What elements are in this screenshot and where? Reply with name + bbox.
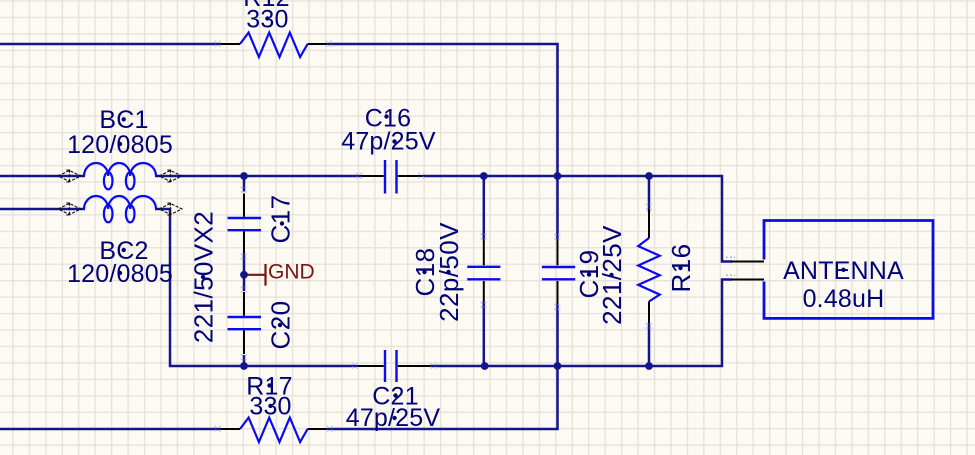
junction node top rail at R16 (645, 172, 653, 180)
capacitor C19 wire stubs (556, 176, 559, 366)
capacitor C21 plates (385, 350, 397, 382)
marker BC1 pin 1 (58, 170, 81, 183)
capacitor C16 plates (385, 160, 397, 194)
resistor R17 leads (pins) (220, 428, 328, 430)
inductor BC2 (84, 196, 156, 222)
antenna U1 pins (731, 262, 764, 280)
marker BC1 pin 2 (159, 170, 182, 183)
capacitor C20 plates (228, 317, 262, 329)
wire top rail left of R12 (0, 43, 220, 46)
resistor R17 (240, 418, 308, 442)
capacitor C17 plates (228, 218, 262, 230)
capacitor C17 wire stubs (243, 176, 246, 366)
pin-end ghost marks R17 (216, 426, 333, 433)
svg-text:C17: C17 (265, 195, 295, 244)
capacitor C21 pins (357, 365, 431, 367)
pin-end ghost marks C19 (554, 235, 561, 310)
capacitor C19 pins (557, 239, 559, 304)
junction node top rail at C19 (554, 172, 562, 180)
junction GND node (240, 271, 248, 279)
capacitor C18 wire stubs (483, 176, 486, 366)
pin-end ghost marks C16 (357, 173, 424, 180)
junction node bottom rail at R16 (645, 362, 653, 370)
wire BC2 right corner down to bottom rail and to C21 (155, 209, 357, 366)
resistor R16 wire stubs (648, 176, 651, 366)
pin-end ghost marks C17 (241, 188, 248, 259)
junction node top rail at C17 (240, 172, 248, 180)
wire drop from bottom rail to R17 rail (328, 366, 558, 429)
wire top rail from C16 to right corner and antenna pin 1 (422, 176, 732, 262)
inductor BC1 (84, 163, 156, 189)
resistor R12 leads (pins) (220, 43, 328, 45)
wire top rail right of R12 with corner down to node at (557.5,176) (328, 44, 558, 176)
svg-text:47p/25V: 47p/25V (341, 127, 436, 155)
resistor R16 (638, 238, 660, 302)
pin-end ghost marks C18 (480, 235, 487, 308)
capacitor C19 plates (542, 267, 575, 279)
junction node bottom rail at C19 (554, 362, 562, 370)
capacitor C16 pins (361, 175, 422, 177)
junction node bottom rail at C18 (481, 362, 489, 370)
capacitor C20 pins (243, 292, 245, 354)
antenna U1 pin number ghosts (726, 257, 735, 275)
resistor R16 pins (648, 209, 650, 323)
capacitor C18 pins (483, 239, 485, 302)
antenna U1 box (764, 221, 933, 319)
pin-end ghost marks R12 (216, 41, 332, 48)
junction node top rail at C18 (480, 172, 488, 180)
capacitor C18 plates (467, 267, 500, 280)
wire BC1 row right to C16 (155, 175, 361, 178)
wire bottom rail from C21 to right corner and antenna pin 2 (431, 280, 733, 367)
svg-text:GND: GND (268, 260, 315, 283)
resistor R12 (240, 33, 308, 57)
marker BC2 pin 1 (58, 203, 81, 216)
wire BC2 row left (0, 208, 85, 211)
power port GND line (247, 264, 266, 286)
pin-end ghost marks C21 (353, 363, 436, 370)
wire BC1 row left (0, 175, 85, 178)
capacitor C17 pins (243, 194, 245, 254)
junction node bottom rail at C20 (240, 362, 248, 370)
pin-end ghost marks C20 (241, 288, 248, 360)
svg-text:0.48uH: 0.48uH (803, 285, 885, 313)
wire R17 rail left (0, 428, 220, 431)
pin-end ghost marks R16 (646, 205, 653, 329)
marker BC2 pin 2 (159, 203, 182, 216)
